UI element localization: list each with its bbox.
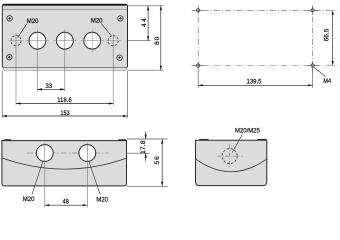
hole right (bottom view) [79, 145, 96, 162]
hole left (bottom view) [36, 145, 53, 162]
svg-text:17.8: 17.8 [140, 140, 147, 154]
extension lines right of front view [128, 5, 164, 7]
dim 139.5 [198, 78, 312, 86]
knockout M20 left (dashed) [8, 36, 23, 46]
knockout crosshair vertical [229, 145, 231, 168]
screw top-left [7, 16, 12, 21]
extension line left edge [1, 71, 3, 118]
mounting hole top-right [307, 6, 318, 15]
centerline left vertical [197, 5, 199, 70]
seam curve end view [196, 159, 267, 172]
screw bottom-left [7, 55, 12, 60]
knockout M20 right (dashed) [106, 36, 121, 46]
label M20/M25 [232, 127, 260, 152]
label M20 bottom-left [23, 161, 43, 203]
svg-text:33: 33 [46, 83, 53, 90]
svg-text:56: 56 [154, 156, 161, 165]
svg-text:66.5: 66.5 [323, 28, 330, 41]
extension line hole-left vertical [44, 143, 46, 208]
dim 56 [154, 139, 163, 186]
centerline bottom horizontal [192, 65, 339, 67]
dim 44 [141, 6, 149, 41]
front bottom flange [4, 68, 127, 71]
extension line hole1 vertical [36, 29, 38, 91]
extension line knockout-left vertical [15, 33, 17, 105]
svg-text:153: 153 [60, 110, 70, 117]
svg-text:M20: M20 [27, 18, 39, 25]
tab left [3, 139, 11, 140]
dim 66.5 [323, 10, 333, 65]
svg-text:M20: M20 [91, 17, 103, 24]
dim 118.6 [16, 97, 113, 105]
mounting hole bottom-left [193, 61, 204, 70]
svg-text:48: 48 [62, 198, 69, 205]
dim 153 [2, 110, 127, 117]
tab right [118, 139, 126, 140]
extension lines for 139.5 [197, 68, 199, 88]
end view body [196, 140, 267, 185]
mounting hole bottom-right M4 [307, 61, 318, 70]
bottom view body [2, 141, 127, 186]
end view tab left [199, 139, 208, 141]
knockout crosshair horizontal [217, 155, 243, 157]
svg-text:M4: M4 [323, 78, 331, 85]
center line through holes [27, 152, 109, 154]
hole 3 [81, 29, 104, 52]
svg-text:44: 44 [141, 18, 148, 27]
enclosure front body [2, 4, 127, 67]
label M20 top-right [91, 17, 111, 35]
dim 17.8 [140, 131, 147, 161]
screw top-right [118, 16, 123, 21]
svg-text:118.6: 118.6 [57, 97, 72, 104]
extension line knockout-right vertical [112, 33, 114, 105]
mounting hole top-left [193, 6, 204, 15]
svg-text:M20: M20 [96, 196, 108, 203]
hole 2 [53, 32, 76, 49]
label M4 [314, 67, 332, 85]
label M20 bottom-right [89, 161, 109, 203]
end view tab right [257, 139, 266, 141]
dim 33 [37, 83, 64, 91]
dim 80 [154, 6, 162, 70]
dim 48 [45, 198, 88, 206]
svg-text:139.5: 139.5 [247, 78, 262, 85]
hole 1 [26, 32, 49, 49]
svg-text:80: 80 [154, 36, 161, 45]
knockout M20/M25 (dashed) [222, 149, 237, 164]
extension line hole-right vertical [86, 143, 88, 208]
extension lines right of bottom view [127, 138, 168, 140]
label M20 top-left [18, 18, 39, 38]
svg-text:M20/M25: M20/M25 [235, 127, 260, 134]
extension line hole2 vertical [64, 29, 66, 91]
svg-text:M20: M20 [23, 196, 35, 203]
seam curve bottom view [2, 158, 127, 169]
centerline top horizontal [192, 9, 339, 11]
extension line right edge [126, 71, 128, 118]
screw bottom-right [117, 55, 122, 60]
centerline right vertical [312, 5, 314, 70]
